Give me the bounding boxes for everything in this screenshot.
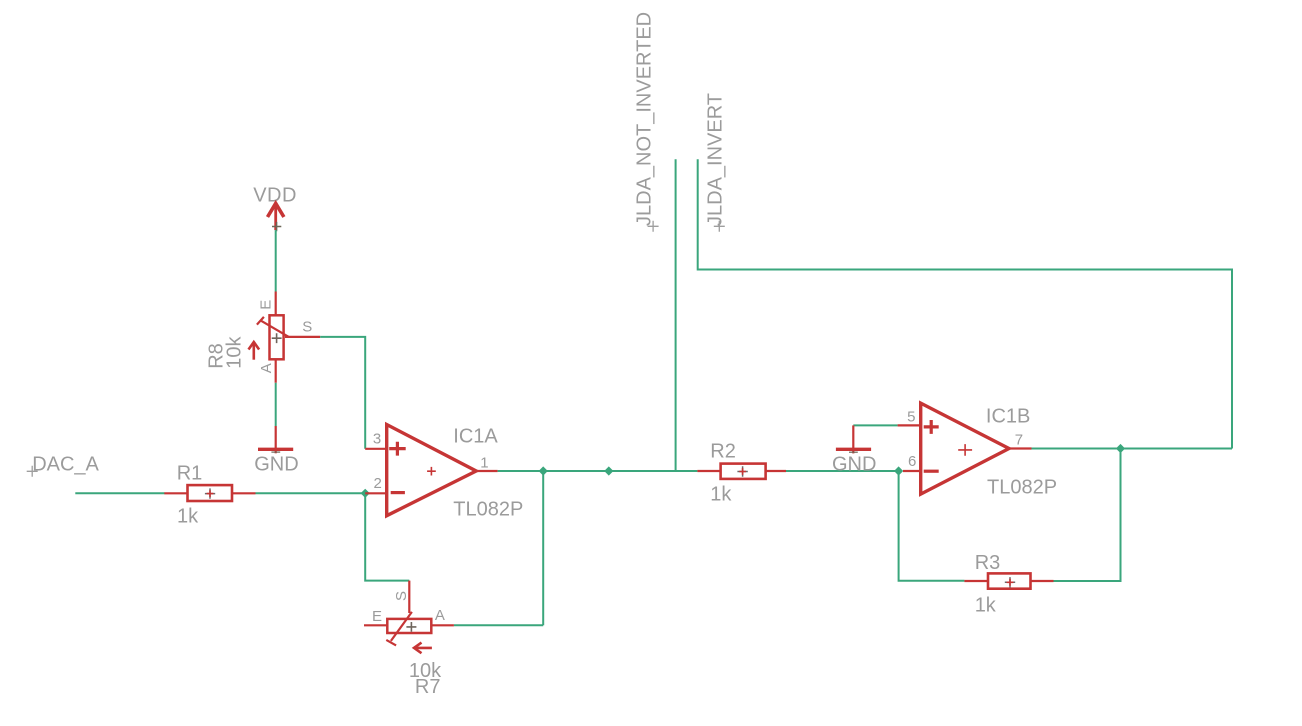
svg-text:R1: R1 xyxy=(177,463,203,485)
ground GND (left) xyxy=(254,426,298,476)
svg-text:2: 2 xyxy=(374,475,382,492)
wire feedback down to R3 xyxy=(1054,449,1121,582)
resistor R3 xyxy=(964,552,1053,617)
net label JLDA_INVERT xyxy=(705,93,727,232)
node junction pin2 xyxy=(361,489,370,498)
node junction mid xyxy=(604,466,613,475)
svg-text:6: 6 xyxy=(908,453,916,470)
svg-text:TL082P: TL082P xyxy=(987,477,1057,499)
wire R8 A to GND xyxy=(275,383,277,426)
svg-text:S: S xyxy=(302,319,312,336)
wire VDD to R8 xyxy=(275,230,277,291)
svg-text:JLDA_INVERT: JLDA_INVERT xyxy=(705,93,727,226)
wire JLDA_NOT_INVERTED vertical xyxy=(675,159,677,471)
node junction out B xyxy=(1116,444,1125,453)
svg-text:IC1A: IC1A xyxy=(453,426,498,448)
potentiometer R7 10k xyxy=(364,581,454,698)
svg-text:R2: R2 xyxy=(710,440,736,462)
svg-text:GND: GND xyxy=(254,454,298,476)
svg-text:E: E xyxy=(258,300,275,310)
svg-text:TL082P: TL082P xyxy=(453,499,523,521)
svg-text:7: 7 xyxy=(1015,432,1023,449)
wire DAC_A to R1 xyxy=(75,492,164,494)
wire JLDA_INVERT to IC1B output net xyxy=(698,159,1232,448)
svg-text:1k: 1k xyxy=(710,484,732,506)
svg-text:R3: R3 xyxy=(975,552,1001,574)
svg-text:3: 3 xyxy=(373,431,381,448)
node junction pin6 xyxy=(894,466,903,475)
power VDD xyxy=(253,185,297,232)
svg-text:A: A xyxy=(258,363,275,373)
wire R8 S to IC1A pin3 xyxy=(320,337,365,449)
wire R2 to IC1B pin6 xyxy=(786,470,899,472)
svg-text:1k: 1k xyxy=(975,594,997,616)
svg-text:DAC_A: DAC_A xyxy=(32,454,99,476)
svg-text:E: E xyxy=(372,608,382,625)
wire IC1B out to right xyxy=(1032,448,1233,450)
wiper arrow R8 xyxy=(253,344,256,360)
wire IC1A out to R2 xyxy=(498,470,698,472)
op-amp IC1A xyxy=(365,425,523,521)
op-amp IC1B xyxy=(898,403,1057,499)
resistor R2 xyxy=(697,440,786,505)
wire R1 to IC1A pin2 xyxy=(256,492,366,494)
wire feedback down to R7 xyxy=(454,471,543,625)
svg-text:10k: 10k xyxy=(224,336,246,369)
svg-text:1: 1 xyxy=(480,454,488,471)
svg-text:GND: GND xyxy=(832,454,876,476)
svg-text:5: 5 xyxy=(907,409,915,426)
svg-text:IC1B: IC1B xyxy=(986,405,1030,427)
wire pin6 down to R3 xyxy=(899,471,965,581)
svg-text:S: S xyxy=(393,591,410,601)
ground GND (right) xyxy=(832,425,876,475)
svg-text:1k: 1k xyxy=(177,505,199,527)
svg-text:R7: R7 xyxy=(415,676,441,698)
svg-text:JLDA_NOT_INVERTED: JLDA_NOT_INVERTED xyxy=(634,12,656,226)
wire GND stub to IC1B pin5 xyxy=(853,424,897,426)
wiper arrow R7 xyxy=(416,647,432,650)
resistor R1 xyxy=(164,463,255,528)
node DAC_A label xyxy=(27,454,100,477)
node junction out A xyxy=(539,466,548,475)
potentiometer R8 10k xyxy=(206,292,321,383)
wire pin2 junction down to R7 S xyxy=(365,493,409,580)
net label JLDA_NOT_INVERTED xyxy=(634,12,659,232)
svg-text:A: A xyxy=(435,607,445,624)
